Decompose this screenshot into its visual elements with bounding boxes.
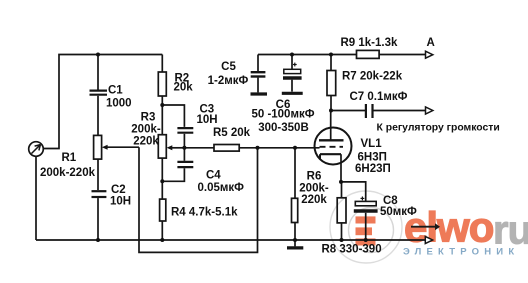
wire bottom ground rail xyxy=(36,239,425,241)
wire node to C3 xyxy=(162,105,184,127)
svg-text:300-350В: 300-350В xyxy=(258,122,309,134)
resistor R5 xyxy=(184,145,319,152)
svg-text:ЭЛЕКТРОНИК: ЭЛЕКТРОНИК xyxy=(403,247,519,258)
svg-text:R7 20k-22k: R7 20k-22k xyxy=(342,71,403,83)
wire connector ground lead xyxy=(35,156,37,240)
svg-text:0.05мкФ: 0.05мкФ xyxy=(198,182,245,194)
svg-text:R9 1k-1.3k: R9 1k-1.3k xyxy=(341,37,399,49)
svg-text:20k: 20k xyxy=(174,82,194,94)
wire top supply rail xyxy=(258,54,357,56)
svg-text:R3: R3 xyxy=(141,112,156,124)
ground xyxy=(287,240,303,248)
wire connector to top rail xyxy=(43,55,162,149)
resistor R2 xyxy=(158,55,166,135)
triode VL1 xyxy=(315,111,352,182)
svg-text:К регулятору громкости: К регулятору громкости xyxy=(377,123,500,134)
svg-text:220k: 220k xyxy=(133,136,159,148)
terminal to volume control xyxy=(426,107,433,114)
svg-text:C4: C4 xyxy=(206,170,221,182)
potentiometer R1 xyxy=(94,135,139,159)
svg-text:10Н: 10Н xyxy=(110,196,131,208)
svg-text:C7 0.1мкФ: C7 0.1мкФ xyxy=(350,91,408,103)
resistor R8 xyxy=(337,182,346,240)
input connector XS1 xyxy=(29,142,44,157)
resistor R7 xyxy=(327,55,336,111)
svg-text:200k-: 200k- xyxy=(299,183,329,195)
svg-text:R6: R6 xyxy=(307,171,322,183)
capacitor C2 xyxy=(92,159,107,240)
svg-text:220k: 220k xyxy=(301,194,327,206)
capacitor C7 xyxy=(331,104,425,118)
terminal A xyxy=(426,51,433,58)
svg-text:6Н23П: 6Н23П xyxy=(355,163,391,175)
svg-text:50мкФ: 50мкФ xyxy=(380,206,417,218)
svg-text:R5 20k: R5 20k xyxy=(213,127,251,139)
resistor R9 xyxy=(357,50,426,58)
wire R1 wiper loop to grid node xyxy=(139,147,258,252)
terminal bottom output xyxy=(425,237,432,244)
svg-text:C2: C2 xyxy=(111,184,126,196)
capacitor C4 xyxy=(162,148,193,182)
svg-text:1000: 1000 xyxy=(106,98,132,110)
svg-text:10Н: 10Н xyxy=(197,114,218,126)
svg-text:R8 330-390: R8 330-390 xyxy=(322,244,382,256)
ground xyxy=(282,92,303,95)
ground xyxy=(251,92,268,95)
resistor R6 xyxy=(292,148,298,240)
svg-text:200k-220k: 200k-220k xyxy=(40,167,96,179)
svg-text:200k-: 200k- xyxy=(131,124,161,136)
svg-text:1-2мкФ: 1-2мкФ xyxy=(208,75,249,87)
capacitor C3 xyxy=(177,128,193,148)
svg-text:C5: C5 xyxy=(221,61,236,73)
potentiometer R3 xyxy=(158,135,184,199)
capacitor C1 xyxy=(90,55,108,136)
elwo.ru watermark logo xyxy=(330,191,528,263)
svg-text:C1: C1 xyxy=(108,85,123,97)
svg-text:6Н3П: 6Н3П xyxy=(358,152,387,164)
svg-text:R4 4.7k-5.1k: R4 4.7k-5.1k xyxy=(171,207,238,219)
capacitor C6 xyxy=(283,55,302,92)
capacitor C8 xyxy=(341,182,378,240)
svg-text:50 -100мкФ: 50 -100мкФ xyxy=(251,109,314,121)
capacitor C5 xyxy=(251,55,266,93)
resistor R4 xyxy=(160,199,166,240)
svg-text:R1: R1 xyxy=(62,152,77,164)
svg-text:A: A xyxy=(427,37,435,49)
svg-text:VL1: VL1 xyxy=(361,138,383,150)
